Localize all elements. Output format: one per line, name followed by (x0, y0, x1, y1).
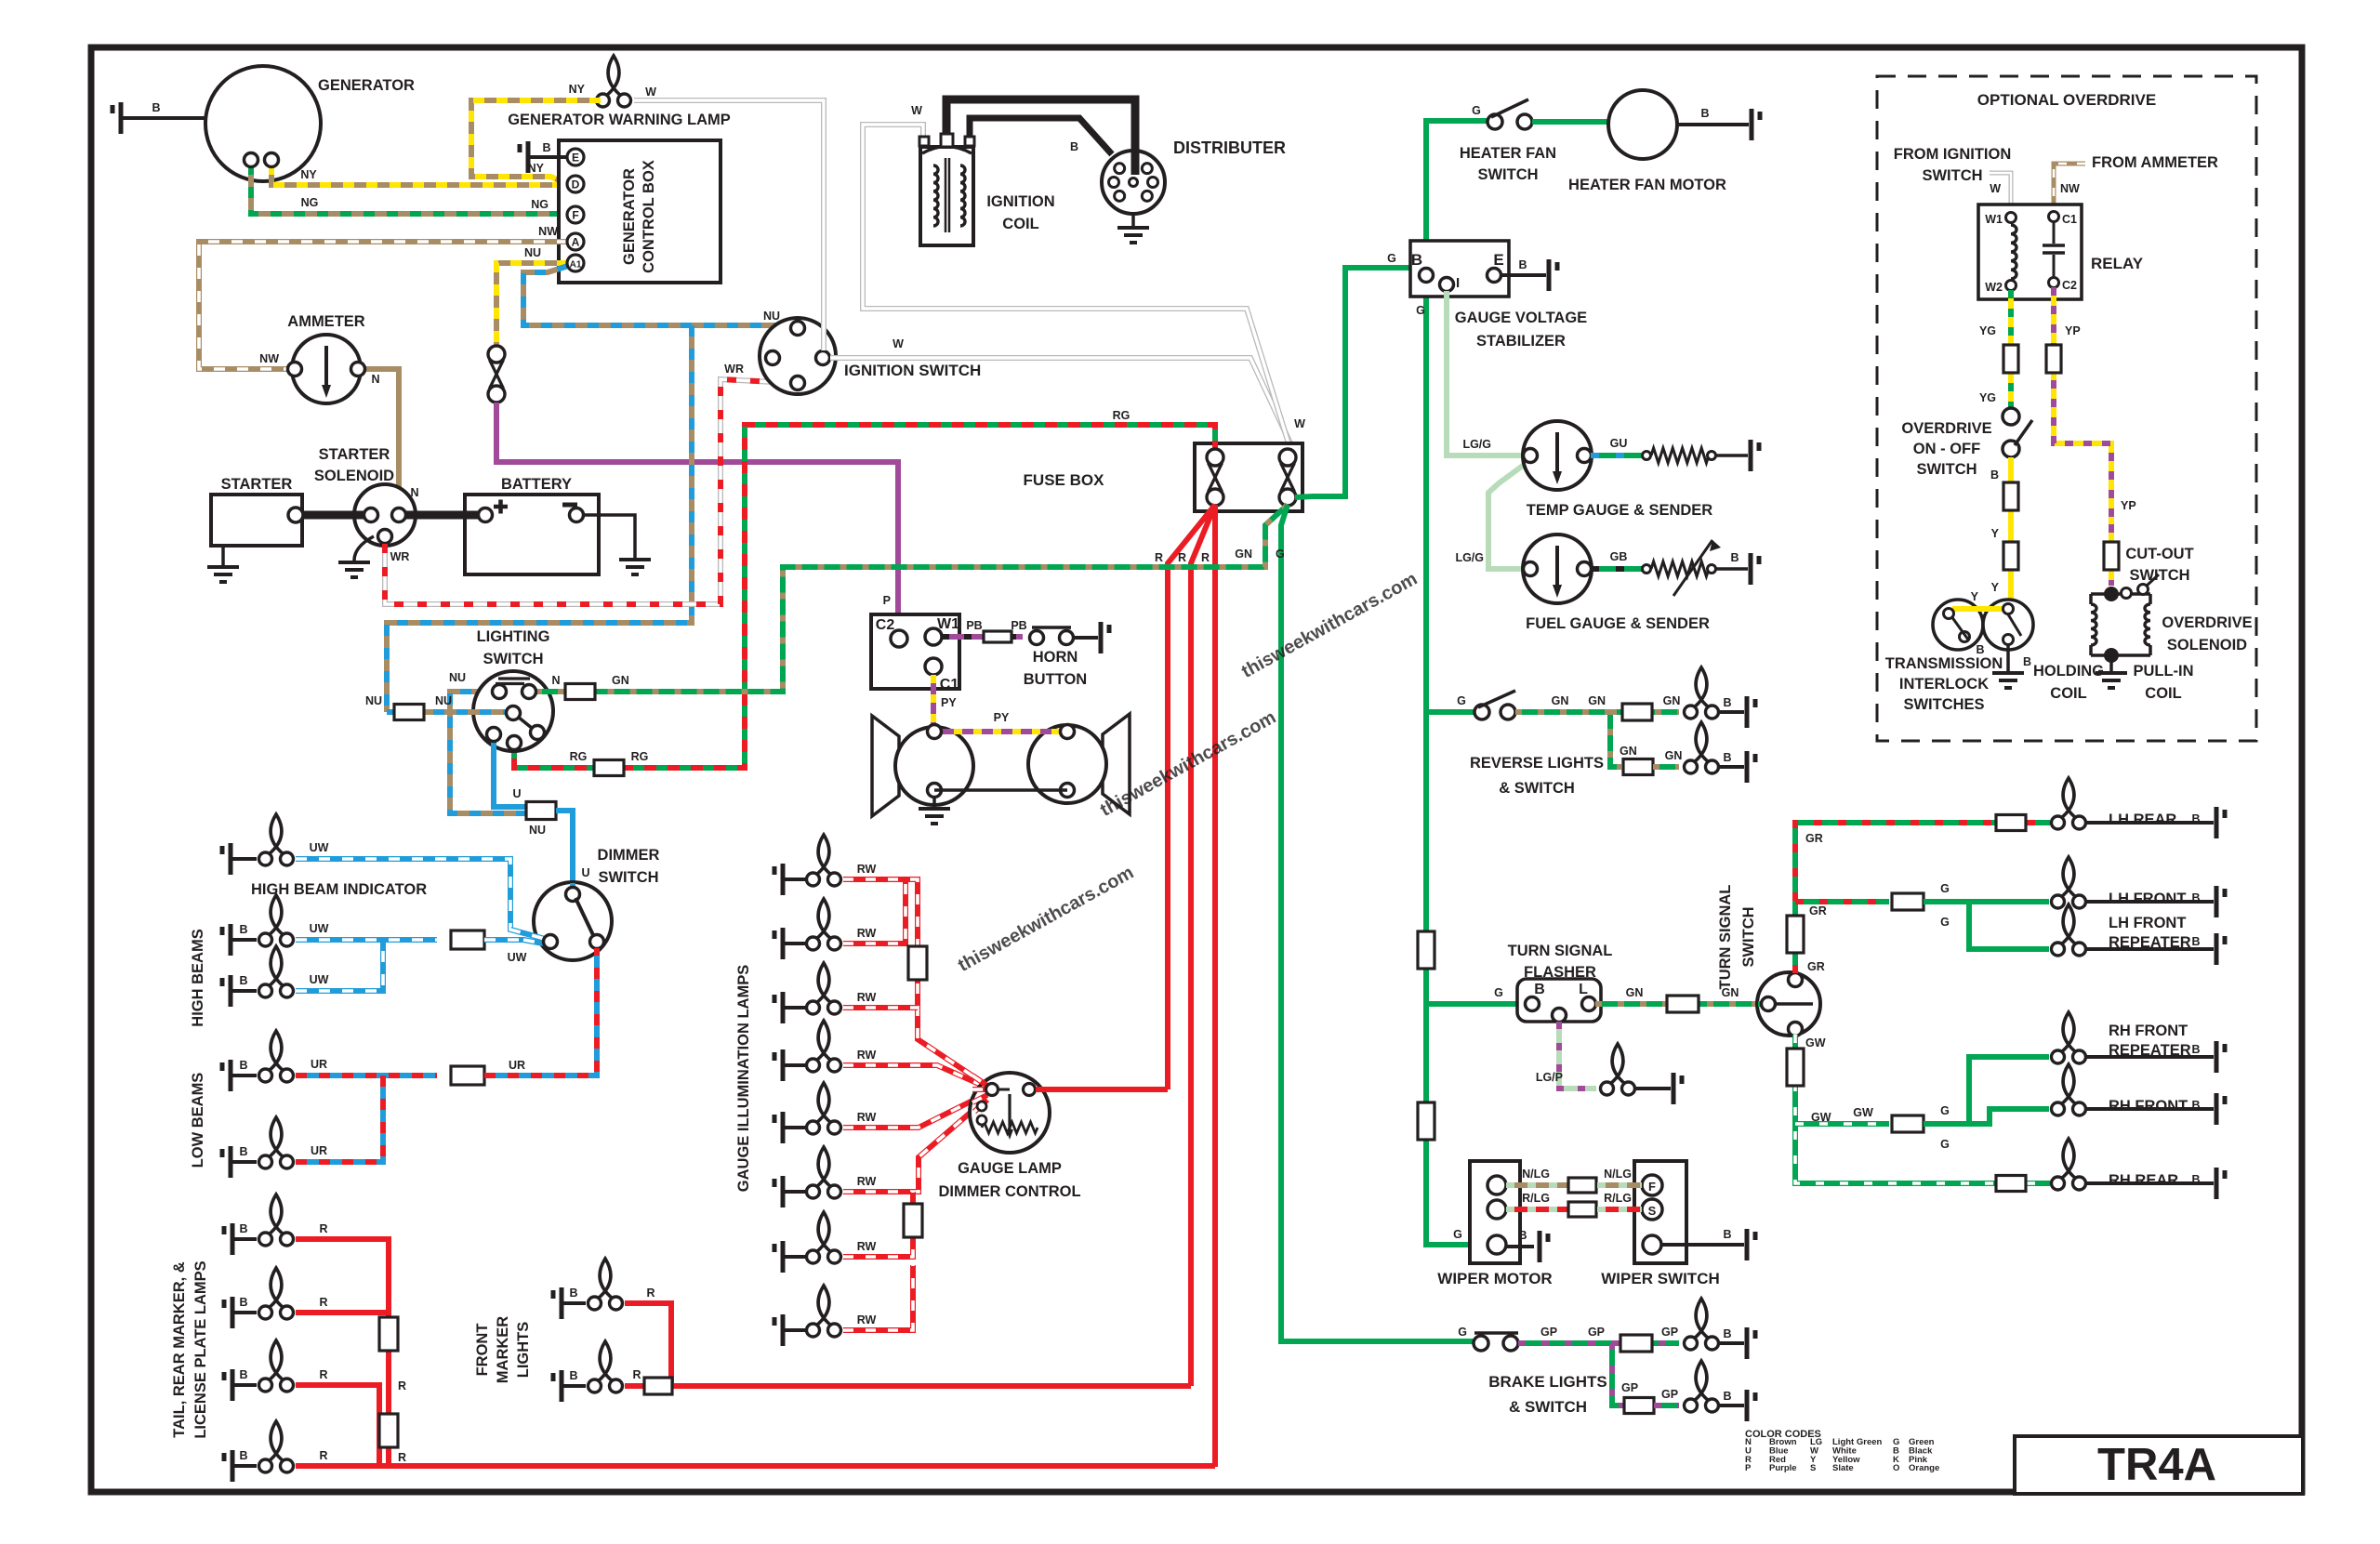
svg-text:A1: A1 (570, 260, 582, 271)
svg-text:LG/G: LG/G (1455, 551, 1484, 564)
svg-text:W1: W1 (937, 616, 959, 632)
svg-text:G: G (1457, 694, 1466, 707)
svg-text:R: R (1201, 551, 1210, 564)
svg-text:O: O (1893, 1463, 1899, 1473)
svg-text:UR: UR (509, 1059, 525, 1072)
svg-text:RH FRONT: RH FRONT (2109, 1098, 2188, 1115)
svg-text:F: F (572, 209, 578, 222)
svg-text:YP: YP (2065, 324, 2081, 337)
svg-text:GN: GN (1552, 694, 1569, 707)
svg-text:B: B (2023, 655, 2031, 668)
svg-text:GN: GN (1626, 986, 1644, 999)
svg-text:Y: Y (1991, 581, 2000, 594)
svg-text:GR: GR (1805, 832, 1823, 845)
svg-text:B: B (239, 1368, 247, 1381)
svg-text:HORN: HORN (1033, 649, 1078, 666)
svg-text:NU: NU (524, 246, 541, 259)
svg-text:LOW BEAMS: LOW BEAMS (190, 1073, 206, 1168)
svg-text:WIPER MOTOR: WIPER MOTOR (1437, 1270, 1552, 1287)
svg-text:GP: GP (1661, 1326, 1678, 1339)
svg-text:LICENSE PLATE LAMPS: LICENSE PLATE LAMPS (192, 1260, 209, 1438)
svg-text:TAIL, REAR MARKER, &: TAIL, REAR MARKER, & (171, 1261, 188, 1438)
svg-text:RW: RW (857, 1240, 877, 1253)
svg-text:PULL-IN: PULL-IN (2133, 663, 2193, 680)
svg-text:NW: NW (259, 352, 279, 365)
svg-text:R: R (319, 1222, 327, 1235)
svg-text:F: F (1648, 1180, 1656, 1194)
svg-text:BATTERY: BATTERY (501, 476, 572, 493)
svg-text:B: B (1730, 551, 1739, 564)
svg-text:UR: UR (311, 1058, 327, 1071)
svg-text:B: B (1990, 468, 1999, 482)
svg-text:TRANSMISSION: TRANSMISSION (1885, 655, 2003, 672)
svg-text:CONTROL BOX: CONTROL BOX (641, 160, 657, 273)
svg-text:REPEATER: REPEATER (2109, 1042, 2191, 1059)
svg-text:B: B (239, 1296, 247, 1309)
svg-text:WR: WR (390, 550, 410, 563)
svg-text:GAUGE VOLTAGE: GAUGE VOLTAGE (1455, 310, 1587, 326)
svg-text:B: B (1723, 1327, 1731, 1340)
svg-text:SWITCHES: SWITCHES (1903, 696, 1984, 713)
svg-text:G: G (1453, 1228, 1462, 1241)
svg-text:HEATER FAN: HEATER FAN (1460, 145, 1556, 162)
svg-text:GP: GP (1588, 1326, 1605, 1339)
svg-text:AMMETER: AMMETER (287, 313, 364, 330)
svg-text:S: S (1810, 1463, 1816, 1473)
svg-text:NY: NY (300, 168, 317, 181)
svg-text:C1: C1 (940, 677, 959, 693)
svg-text:B: B (1976, 643, 1984, 656)
svg-text:WIPER SWITCH: WIPER SWITCH (1601, 1270, 1720, 1287)
svg-text:RH REAR: RH REAR (2109, 1172, 2178, 1189)
svg-text:RW: RW (857, 1175, 877, 1188)
svg-text:NU: NU (365, 694, 382, 707)
svg-text:COIL: COIL (2050, 685, 2086, 702)
svg-text:MARKER: MARKER (495, 1316, 511, 1383)
svg-text:LH FRONT: LH FRONT (2109, 891, 2186, 907)
svg-text:TR4A: TR4A (2097, 1440, 2216, 1490)
svg-text:B: B (152, 101, 160, 114)
svg-text:S: S (1648, 1204, 1657, 1218)
svg-text:GAUGE ILLUMINATION LAMPS: GAUGE ILLUMINATION LAMPS (735, 965, 752, 1192)
svg-text:N/LG: N/LG (1522, 1168, 1550, 1181)
svg-text:Slate: Slate (1832, 1463, 1854, 1473)
svg-text:B: B (1070, 140, 1078, 153)
svg-text:RW: RW (857, 863, 877, 876)
svg-text:RH FRONT: RH FRONT (2109, 1023, 2188, 1039)
svg-text:RW: RW (857, 991, 877, 1004)
svg-text:LIGHTS: LIGHTS (515, 1322, 532, 1379)
svg-text:FUEL GAUGE & SENDER: FUEL GAUGE & SENDER (1526, 615, 1710, 632)
svg-text:UW: UW (310, 922, 329, 935)
svg-text:B: B (1723, 1228, 1731, 1241)
svg-text:U: U (581, 866, 589, 879)
svg-text:FROM IGNITION: FROM IGNITION (1894, 146, 2012, 163)
svg-text:SWITCH: SWITCH (1477, 166, 1538, 183)
svg-text:R: R (319, 1368, 327, 1381)
svg-text:DIMMER CONTROL: DIMMER CONTROL (938, 1183, 1080, 1200)
svg-text:SWITCH: SWITCH (1916, 461, 1977, 478)
svg-text:& SWITCH: & SWITCH (1509, 1398, 1587, 1416)
svg-text:LH REAR: LH REAR (2109, 812, 2176, 828)
svg-text:DISTRIBUTER: DISTRIBUTER (1173, 139, 1286, 157)
svg-text:G: G (1276, 548, 1285, 561)
svg-text:YG: YG (1979, 324, 1996, 337)
svg-text:W1: W1 (1985, 213, 2003, 226)
svg-text:SOLENOID: SOLENOID (314, 468, 394, 484)
svg-text:NG: NG (531, 198, 549, 211)
svg-text:E: E (1493, 251, 1503, 269)
svg-text:UR: UR (311, 1144, 327, 1157)
svg-text:GW: GW (1853, 1106, 1873, 1119)
svg-text:STABILIZER: STABILIZER (1476, 333, 1566, 350)
svg-text:GAUGE LAMP: GAUGE LAMP (958, 1160, 1062, 1177)
svg-text:GN: GN (1235, 548, 1252, 561)
svg-text:G: G (1940, 882, 1950, 895)
svg-text:SWITCH: SWITCH (598, 869, 658, 886)
svg-text:L: L (1579, 982, 1588, 997)
svg-text:B: B (239, 1145, 247, 1158)
svg-text:G: G (1494, 986, 1503, 999)
svg-text:W: W (645, 86, 656, 99)
svg-text:OVERDRIVE: OVERDRIVE (2162, 614, 2252, 631)
svg-text:B: B (1723, 696, 1731, 709)
svg-text:G: G (1940, 916, 1950, 929)
svg-text:RG: RG (1113, 409, 1130, 422)
svg-text:STARTER: STARTER (221, 476, 293, 493)
svg-text:SWITCH: SWITCH (1740, 906, 1757, 967)
svg-text:W: W (1990, 182, 2001, 195)
svg-text:C2: C2 (2062, 279, 2077, 292)
svg-text:B: B (2191, 1043, 2200, 1056)
svg-text:B: B (1723, 751, 1731, 764)
svg-text:B: B (1534, 982, 1545, 997)
svg-text:GN: GN (1663, 694, 1681, 707)
svg-text:GN: GN (612, 674, 629, 687)
svg-text:HIGH BEAMS: HIGH BEAMS (190, 929, 206, 1026)
svg-text:Y: Y (1971, 590, 1979, 603)
svg-text:REPEATER: REPEATER (2109, 934, 2191, 951)
svg-text:B: B (2191, 935, 2200, 948)
svg-text:ON - OFF: ON - OFF (1913, 441, 1980, 457)
svg-text:GU: GU (1610, 437, 1628, 450)
svg-text:G: G (1458, 1326, 1467, 1339)
svg-text:Purple: Purple (1769, 1463, 1797, 1473)
svg-text:B: B (1723, 1390, 1731, 1403)
svg-text:W: W (911, 104, 922, 117)
svg-text:R: R (319, 1449, 327, 1462)
svg-text:B: B (239, 1449, 247, 1462)
svg-text:NU: NU (435, 694, 452, 707)
svg-text:OVERDRIVE: OVERDRIVE (1901, 420, 1991, 437)
svg-text:IGNITION: IGNITION (986, 193, 1054, 210)
svg-text:RW: RW (857, 1111, 877, 1124)
svg-text:R: R (398, 1451, 406, 1464)
svg-text:NU: NU (763, 310, 780, 323)
svg-text:B: B (2191, 1099, 2200, 1112)
svg-text:DIMMER: DIMMER (598, 847, 660, 864)
svg-text:LG/P: LG/P (1536, 1071, 1563, 1084)
svg-text:STARTER: STARTER (319, 446, 390, 463)
svg-text:FLASHER: FLASHER (1524, 964, 1596, 981)
svg-text:R/LG: R/LG (1522, 1192, 1550, 1205)
svg-text:HOLDING: HOLDING (2033, 663, 2104, 680)
svg-text:G: G (1940, 1138, 1950, 1151)
svg-text:GN: GN (1665, 749, 1683, 762)
svg-text:FROM AMMETER: FROM AMMETER (2092, 154, 2218, 171)
svg-text:GENERATOR: GENERATOR (621, 168, 638, 265)
svg-text:GP: GP (1621, 1381, 1638, 1394)
svg-text:GB: GB (1610, 550, 1628, 563)
svg-text:GN: GN (1620, 745, 1637, 758)
svg-text:GP: GP (1540, 1326, 1557, 1339)
svg-text:TURN SIGNAL: TURN SIGNAL (1508, 943, 1613, 959)
svg-text:B: B (1518, 258, 1527, 271)
svg-text:FUSE BOX: FUSE BOX (1024, 471, 1105, 489)
svg-text:SWITCH: SWITCH (1922, 167, 1982, 184)
svg-text:SWITCH: SWITCH (483, 651, 543, 667)
svg-text:IGNITION SWITCH: IGNITION SWITCH (844, 362, 981, 379)
svg-text:OPTIONAL OVERDRIVE: OPTIONAL OVERDRIVE (1977, 91, 2156, 109)
svg-text:PY: PY (994, 711, 1010, 724)
svg-text:GR: GR (1807, 960, 1825, 973)
svg-text:B: B (1411, 251, 1422, 269)
svg-text:COIL: COIL (2145, 685, 2181, 702)
svg-text:REVERSE LIGHTS: REVERSE LIGHTS (1470, 755, 1604, 772)
svg-text:P: P (1745, 1463, 1752, 1473)
svg-text:WR: WR (724, 363, 744, 376)
svg-text:R: R (646, 1287, 654, 1300)
svg-text:YG: YG (1979, 391, 1996, 404)
svg-text:G: G (1416, 304, 1425, 317)
svg-text:G: G (1387, 252, 1396, 265)
svg-text:R: R (632, 1368, 641, 1381)
svg-text:G: G (1472, 104, 1481, 117)
svg-text:BRAKE LIGHTS: BRAKE LIGHTS (1488, 1373, 1607, 1391)
svg-text:U: U (512, 787, 521, 800)
svg-text:GN: GN (1588, 694, 1606, 707)
svg-text:C1: C1 (2062, 213, 2077, 226)
svg-text:GENERATOR WARNING LAMP: GENERATOR WARNING LAMP (508, 112, 731, 128)
svg-text:B: B (2191, 1173, 2200, 1186)
svg-text:PY: PY (941, 696, 957, 709)
svg-text:R: R (398, 1379, 406, 1392)
svg-text:N: N (371, 373, 379, 386)
svg-text:C2: C2 (876, 617, 895, 633)
svg-text:GP: GP (1661, 1388, 1678, 1401)
svg-text:NU: NU (529, 824, 546, 837)
svg-text:TEMP GAUGE & SENDER: TEMP GAUGE & SENDER (1527, 502, 1713, 519)
svg-text:UW: UW (310, 973, 329, 986)
svg-text:D: D (572, 178, 580, 191)
svg-text:RW: RW (857, 927, 877, 940)
svg-text:B: B (569, 1369, 577, 1382)
svg-text:E: E (572, 152, 579, 165)
svg-text:LIGHTING: LIGHTING (477, 628, 550, 645)
svg-text:G: G (1940, 1104, 1950, 1117)
svg-text:PB: PB (1011, 619, 1026, 632)
svg-text:PB: PB (966, 619, 982, 632)
svg-text:B: B (542, 141, 550, 154)
svg-text:COIL: COIL (1002, 216, 1038, 232)
svg-text:B: B (239, 974, 247, 987)
svg-text:B: B (569, 1287, 577, 1300)
svg-text:GENERATOR: GENERATOR (318, 77, 415, 94)
svg-text:NY: NY (569, 83, 586, 96)
svg-text:B: B (239, 1059, 247, 1072)
svg-text:GR: GR (1809, 904, 1827, 917)
svg-text:B: B (1700, 107, 1709, 120)
svg-text:I: I (1456, 275, 1460, 291)
svg-text:RW: RW (857, 1049, 877, 1062)
svg-text:YP: YP (2121, 499, 2136, 512)
svg-text:NG: NG (301, 196, 319, 209)
svg-text:GW: GW (1805, 1036, 1826, 1049)
svg-text:N/LG: N/LG (1604, 1168, 1632, 1181)
svg-text:SOLENOID: SOLENOID (2167, 637, 2247, 653)
svg-text:Orange: Orange (1909, 1463, 1939, 1473)
svg-text:RG: RG (631, 750, 649, 763)
svg-text:UW: UW (508, 951, 527, 964)
svg-text:W2: W2 (1985, 281, 2003, 294)
svg-text:LG/G: LG/G (1462, 438, 1491, 451)
svg-text:& SWITCH: & SWITCH (1499, 780, 1575, 797)
svg-text:A: A (572, 236, 580, 249)
svg-text:W: W (1294, 417, 1305, 430)
svg-text:TURN SIGNAL: TURN SIGNAL (1717, 885, 1734, 990)
svg-text:N: N (551, 674, 560, 687)
svg-text:RG: RG (570, 750, 588, 763)
svg-text:P: P (883, 594, 891, 607)
svg-text:B: B (239, 1222, 247, 1235)
svg-text:R: R (319, 1296, 327, 1309)
svg-text:R: R (1155, 551, 1163, 564)
svg-text:LH FRONT: LH FRONT (2109, 915, 2186, 931)
svg-text:B: B (2191, 891, 2200, 904)
svg-text:FRONT: FRONT (474, 1324, 491, 1377)
svg-text:UW: UW (310, 841, 329, 854)
svg-text:RW: RW (857, 1313, 877, 1326)
svg-text:NW: NW (538, 225, 558, 238)
svg-text:BUTTON: BUTTON (1024, 671, 1087, 688)
svg-text:INTERLOCK: INTERLOCK (1899, 676, 1989, 693)
svg-text:NU: NU (449, 671, 466, 684)
svg-text:B: B (239, 923, 247, 936)
svg-text:R/LG: R/LG (1604, 1192, 1632, 1205)
svg-text:HEATER FAN MOTOR: HEATER FAN MOTOR (1568, 177, 1726, 193)
svg-text:NW: NW (2060, 182, 2080, 195)
svg-text:R: R (1178, 551, 1186, 564)
svg-text:B: B (2191, 812, 2200, 825)
svg-text:SWITCH: SWITCH (2129, 567, 2189, 584)
svg-text:Y: Y (1991, 527, 2000, 540)
svg-text:B: B (1518, 1229, 1527, 1242)
svg-text:RELAY: RELAY (2091, 255, 2144, 272)
svg-text:CUT-OUT: CUT-OUT (2125, 546, 2193, 562)
svg-text:W: W (892, 337, 904, 350)
